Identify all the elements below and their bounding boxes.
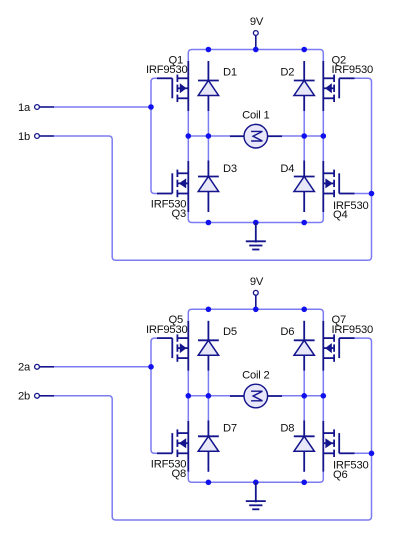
svg-text:Coil 2: Coil 2	[242, 369, 269, 381]
diode D5	[198, 321, 219, 371]
wire left bridge node	[187, 371, 189, 421]
label IRF530 (Q8)	[151, 458, 187, 470]
junction node / D6	[301, 393, 307, 399]
svg-text:Q8: Q8	[171, 468, 186, 480]
wire left node to coil	[188, 395, 230, 397]
transistor Q2 (IRF9530)	[323, 61, 354, 111]
diode D4	[294, 161, 315, 213]
label Q7	[332, 314, 347, 326]
ground	[246, 482, 266, 509]
junction +9V rail / D6	[301, 307, 307, 313]
label Q5	[168, 314, 183, 326]
wire right bridge node	[322, 111, 324, 161]
junction right bridge node	[321, 133, 327, 139]
junction ground rail / ground	[253, 480, 259, 486]
label IRF9530 (Q1)	[146, 64, 188, 76]
junction right bridge node	[321, 393, 327, 399]
junction ground rail / D4	[301, 220, 307, 226]
label 1b	[18, 131, 30, 143]
label Q3	[171, 208, 186, 220]
junction 1b / low-side gate	[369, 191, 375, 197]
wire D5 branch	[207, 371, 209, 421]
svg-text:D2: D2	[280, 66, 294, 78]
wire left node to coil	[188, 135, 230, 137]
wire 1a to gate line	[54, 106, 151, 108]
transistor Q8 (IRF530)	[157, 421, 188, 472]
label D2	[280, 66, 294, 78]
label IRF9530 (Q7)	[332, 324, 374, 336]
label Q6	[333, 469, 348, 481]
wire ground bottom rail	[188, 212, 323, 223]
label 2b	[18, 391, 30, 403]
svg-text:9V: 9V	[250, 16, 264, 28]
label Coil 2	[242, 369, 269, 381]
diode D6	[294, 321, 315, 371]
label D1	[223, 66, 237, 78]
junction ground rail / D7	[206, 480, 212, 486]
wire 1b to right gates	[54, 78, 371, 260]
junction left bridge node	[186, 133, 192, 139]
label 1a	[18, 102, 31, 114]
svg-text:1b: 1b	[18, 131, 30, 143]
input terminal 1b	[35, 134, 55, 139]
label 9V supply	[250, 276, 264, 288]
coil Coil 2 (motor symbol)	[230, 384, 282, 408]
label IRF530 (Q3)	[151, 199, 187, 211]
transistor Q4 (IRF530)	[323, 161, 354, 212]
svg-text:Q4: Q4	[333, 209, 348, 221]
wire coil to right node	[282, 135, 323, 137]
wire right bridge node	[322, 371, 324, 421]
svg-text:D3: D3	[223, 163, 237, 175]
wire left gate drive	[151, 78, 157, 193]
label IRF530 (Q4)	[333, 200, 369, 212]
svg-text:2b: 2b	[18, 391, 30, 403]
label Q2	[332, 54, 347, 66]
label 9V supply	[250, 16, 264, 28]
label Q1	[168, 54, 183, 66]
input terminal 2a	[35, 364, 55, 369]
svg-text:D8: D8	[280, 423, 294, 435]
label Q4	[333, 209, 348, 221]
wire 2b to right gates	[54, 338, 371, 520]
junction node / D2	[301, 133, 307, 139]
transistor Q3 (IRF530)	[157, 161, 188, 212]
input terminal 1a	[35, 105, 55, 110]
svg-text:IRF9530: IRF9530	[332, 64, 374, 76]
junction 1a / left gate line	[148, 104, 154, 110]
junction node / D1	[206, 133, 212, 139]
svg-text:Q6: Q6	[333, 469, 348, 481]
label D3	[223, 163, 237, 175]
junction ground rail / ground	[253, 220, 259, 226]
svg-text:9V: 9V	[250, 276, 264, 288]
svg-text:Coil 1: Coil 1	[242, 110, 269, 122]
transistor Q7 (IRF9530)	[323, 321, 354, 371]
wire left gate drive	[151, 338, 157, 453]
svg-text:D7: D7	[223, 423, 237, 435]
junction node / D5	[206, 393, 212, 399]
svg-text:1a: 1a	[18, 102, 31, 114]
svg-text:2a: 2a	[18, 362, 31, 374]
svg-text:D1: D1	[223, 66, 237, 78]
label D4	[280, 163, 294, 175]
diode D7	[198, 420, 219, 472]
label Coil 1	[242, 110, 269, 122]
label IRF9530 (Q2)	[332, 64, 374, 76]
coil Coil 1 (motor symbol)	[230, 124, 282, 148]
label IRF530 (Q6)	[333, 460, 369, 472]
label IRF9530 (Q5)	[146, 324, 188, 336]
wire D2 branch	[303, 111, 305, 161]
label D5	[223, 326, 237, 338]
power terminal 9V	[253, 290, 258, 309]
junction left bridge node	[186, 393, 192, 399]
diode D3	[198, 161, 219, 213]
transistor Q6 (IRF530)	[323, 421, 354, 472]
wire D1 branch	[207, 111, 209, 161]
junction 2b / low-side gate	[369, 451, 375, 457]
svg-text:D4: D4	[280, 163, 294, 175]
junction +9V rail / D2	[301, 47, 307, 53]
label Q8	[171, 468, 186, 480]
svg-text:IRF9530: IRF9530	[146, 64, 188, 76]
label 2a	[18, 362, 31, 374]
junction ground rail / D3	[206, 220, 212, 226]
input terminal 2b	[35, 393, 55, 398]
ground	[246, 223, 266, 250]
wire right low gate lead	[355, 193, 372, 195]
junction 2a / left gate line	[148, 364, 154, 370]
junction +9V rail / supply	[253, 307, 259, 313]
svg-text:D5: D5	[223, 326, 237, 338]
junction +9V rail / supply	[253, 47, 259, 53]
junction +9V rail / D5	[206, 307, 212, 313]
svg-text:IRF9530: IRF9530	[146, 324, 188, 336]
label D7	[223, 423, 237, 435]
label D8	[280, 423, 294, 435]
wire ground bottom rail	[188, 472, 323, 483]
wire 2a to gate line	[54, 366, 151, 368]
transistor Q1 (IRF9530)	[157, 61, 188, 111]
junction ground rail / D8	[301, 480, 307, 486]
wire D6 branch	[303, 371, 305, 421]
transistor Q5 (IRF9530)	[157, 321, 188, 371]
svg-text:D6: D6	[280, 326, 294, 338]
wire coil to right node	[282, 395, 323, 397]
diode D2	[294, 61, 315, 111]
power terminal 9V	[253, 31, 258, 50]
label D6	[280, 326, 294, 338]
junction +9V rail / D1	[206, 47, 212, 53]
svg-text:IRF9530: IRF9530	[332, 324, 374, 336]
svg-text:Q3: Q3	[171, 208, 186, 220]
wire left bridge node	[187, 111, 189, 161]
wire +9V top rail	[188, 309, 323, 321]
wire right low gate lead	[355, 452, 372, 454]
diode D1	[198, 61, 219, 111]
diode D8	[294, 420, 315, 472]
wire +9V top rail	[188, 50, 323, 62]
